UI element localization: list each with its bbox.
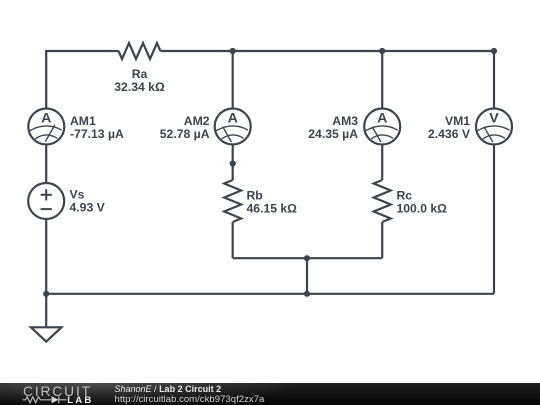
svg-text:A: A — [228, 110, 238, 126]
wire bottom ground net — [46, 293, 494, 295]
footer title line — [115, 385, 222, 394]
wire middle drop to ground net — [306, 258, 308, 294]
wire Rc bottom stub — [381, 222, 383, 258]
ammeter AM2 — [215, 109, 251, 145]
svg-text:24.35 µA: 24.35 µA — [308, 127, 358, 141]
wire top-left from AM1 top up and right to Ra — [46, 51, 118, 108]
resistor Rb — [224, 180, 241, 222]
svg-text:32.34 kΩ: 32.34 kΩ — [114, 80, 165, 94]
junction node bottom middle — [304, 291, 310, 297]
wire AM1 to Vs — [45, 146, 47, 184]
svg-text:Rc: Rc — [397, 189, 413, 203]
wire Rb bottom stub — [232, 222, 234, 258]
CircuitLab logo resistor-diode glyph — [23, 396, 67, 403]
wire VM1 bottom — [493, 146, 495, 294]
junction node top AM2 — [230, 48, 236, 54]
junction node AM2-Rb — [230, 160, 236, 166]
svg-text:52.78 µA: 52.78 µA — [160, 127, 210, 141]
svg-text:Rb: Rb — [247, 189, 263, 203]
resistor Ra — [119, 43, 161, 59]
wire AM3 branch top — [381, 51, 383, 108]
svg-text:A: A — [377, 110, 387, 126]
voltage source Vs — [28, 183, 64, 219]
wire AM2 branch top — [232, 51, 234, 108]
svg-text:Vs: Vs — [70, 188, 85, 202]
svg-text:Ra: Ra — [132, 67, 148, 81]
ammeter AM1 — [28, 109, 64, 145]
svg-text:AM2: AM2 — [184, 114, 210, 128]
svg-text:AM3: AM3 — [332, 114, 358, 128]
junction node inner wire — [304, 255, 310, 261]
wire AM2 to Rb — [232, 146, 234, 181]
wire AM3 to Rc — [381, 146, 383, 181]
wire Vs to ground node — [45, 219, 47, 328]
svg-text:4.93 V: 4.93 V — [70, 201, 106, 215]
svg-text:LAB: LAB — [67, 395, 93, 405]
junction node top VM1 corner — [491, 48, 497, 54]
junction node top AM3 — [379, 48, 385, 54]
footer url line — [115, 395, 265, 404]
svg-text:A: A — [41, 110, 51, 126]
svg-text:V: V — [489, 110, 499, 126]
svg-text:AM1: AM1 — [70, 114, 96, 128]
wire top from Ra to top-right corner down to VM1 — [161, 51, 495, 108]
voltmeter VM1 — [476, 109, 512, 145]
svg-text:2.436 V: 2.436 V — [428, 127, 471, 141]
ground — [31, 327, 62, 341]
junction node bottom left — [43, 291, 49, 297]
svg-text:46.15 kΩ: 46.15 kΩ — [247, 202, 298, 216]
svg-text:-77.13 µA: -77.13 µA — [70, 127, 124, 141]
svg-text:VM1: VM1 — [445, 114, 470, 128]
ammeter AM3 — [364, 109, 400, 145]
wire inner bottom between Rb and Rc — [233, 257, 383, 259]
svg-text:100.0 kΩ: 100.0 kΩ — [397, 202, 448, 216]
resistor Rc — [374, 180, 391, 222]
